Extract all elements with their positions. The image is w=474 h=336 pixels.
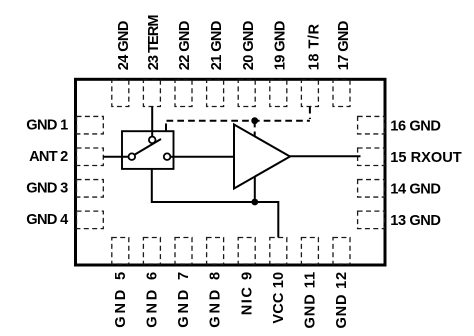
svg-text:20 GND: 20 GND (241, 21, 257, 71)
pin 11 pad (301, 238, 318, 265)
junction dot at VCC node (251, 199, 258, 206)
svg-text:23 TERM: 23 TERM (146, 14, 162, 70)
svg-text:21 GND: 21 GND (209, 21, 225, 71)
pin 2 pad (77, 148, 104, 166)
svg-text:19 GND: 19 GND (273, 21, 289, 71)
pin 4 pad (77, 211, 104, 229)
svg-text:ANT 2: ANT 2 (29, 149, 68, 165)
svg-text:VCC 10: VCC 10 (271, 272, 287, 324)
chip package outline (76, 79, 386, 265)
junction dot on control line (251, 117, 258, 124)
svg-text:18 T/R: 18 T/R (306, 24, 322, 71)
svg-text:GND 12: GND 12 (334, 272, 350, 329)
dashed control wire: stub up from switch box (165, 121, 167, 131)
pin 23 pad (143, 80, 160, 107)
svg-text:GND 1: GND 1 (26, 117, 68, 133)
pin 18 pad (301, 80, 318, 107)
pin 14 pad (358, 180, 385, 198)
pin 8 pad (207, 238, 224, 265)
switch S1 pole contact (ANT) (129, 153, 136, 160)
switch S1 throw contact (RX) (164, 153, 171, 160)
svg-text:NIC 9: NIC 9 (239, 272, 255, 315)
svg-text:GND 6: GND 6 (145, 272, 161, 328)
pin 10 pad (270, 238, 287, 265)
svg-text:13 GND: 13 GND (390, 213, 441, 229)
pin 24 pad (112, 80, 129, 107)
svg-text:15 RXOUT: 15 RXOUT (390, 150, 461, 166)
switch S1 box (122, 131, 174, 169)
svg-text:GND 4: GND 4 (26, 212, 69, 228)
pin 1 pad (77, 116, 104, 134)
pin 20 pad (238, 80, 255, 107)
wire: switch box bottom down (152, 170, 255, 203)
svg-text:GND 5: GND 5 (113, 272, 129, 328)
wire: amplifier output to pin 15 RXOUT pad (289, 155, 361, 157)
pin 6 pad (143, 238, 160, 265)
svg-text:GND 11: GND 11 (303, 272, 319, 329)
pin 21 pad (207, 80, 224, 107)
pin 22 pad (175, 80, 192, 107)
pin 15 pad (358, 148, 385, 166)
svg-text:22 GND: 22 GND (177, 21, 193, 71)
svg-text:14 GND: 14 GND (390, 182, 441, 198)
svg-text:GND 3: GND 3 (26, 181, 68, 197)
pin 12 pad (333, 238, 350, 265)
svg-text:17 GND: 17 GND (336, 21, 352, 71)
wire: VCC rail to pin 10 pad (255, 202, 278, 238)
dashed control wire: horizontal run to pin 18 T/R (167, 120, 310, 122)
wire: amplifier bottom to VCC rail (254, 177, 256, 203)
switch S1 arm (135, 139, 161, 155)
dashed control wire: stub down from pin 18 pad (309, 107, 311, 120)
svg-text:16 GND: 16 GND (390, 119, 441, 135)
pin 19 pad (270, 80, 287, 107)
pin 17 pad (333, 80, 350, 107)
pin 9 pad (238, 238, 255, 265)
pin 3 pad (77, 180, 104, 198)
switch S1 throw contact (TERM) (149, 137, 156, 144)
dashed control branch to amplifier (254, 121, 256, 137)
pin 7 pad (175, 238, 192, 265)
wire: pin 2 ANT pad to switch pole contact (103, 156, 128, 158)
pin 5 pad (112, 238, 129, 265)
wire: switch output to amplifier input (170, 156, 234, 158)
svg-text:24 GND: 24 GND (116, 21, 132, 71)
wire: pin 23 TERM to switch throw contact (151, 107, 153, 137)
pin 13 pad (358, 211, 385, 229)
svg-text:GND 8: GND 8 (208, 272, 224, 328)
svg-text:GND 7: GND 7 (176, 272, 192, 328)
amplifier U1 (234, 125, 290, 189)
pin 16 pad (358, 116, 385, 134)
